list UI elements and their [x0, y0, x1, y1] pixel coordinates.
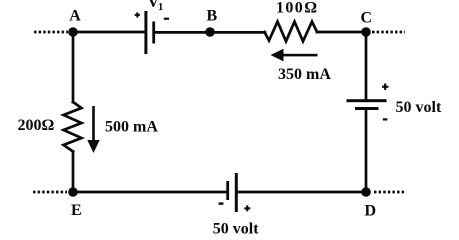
node E dot: [68, 187, 78, 197]
dotted stub left of node E: [33, 191, 67, 194]
wire right: battery bottom plate down to D: [365, 110, 368, 192]
battery 50V right plus sign: [382, 84, 388, 90]
svg-text:C: C: [361, 9, 373, 26]
battery 50V bottom plus sign: [244, 205, 250, 211]
svg-text:50 volt: 50 volt: [396, 99, 442, 116]
svg-text:100Ω: 100Ω: [276, 0, 318, 17]
svg-text:200Ω: 200Ω: [18, 117, 55, 134]
svg-text:A: A: [69, 8, 81, 25]
dotted stub left of node A: [34, 31, 68, 34]
battery V1 right plate (short, -): [152, 22, 155, 44]
svg-text:E: E: [71, 202, 82, 219]
wire top: resistor to C: [317, 31, 366, 34]
resistor 100ohm zigzag: [265, 22, 318, 42]
wire right: C down to battery top plate: [365, 32, 368, 100]
wire left: resistor top up to A: [72, 32, 75, 102]
battery V1 left plate (tall, +): [144, 11, 147, 54]
battery V1 minus sign: [164, 18, 169, 20]
battery 50V bottom: right plate (tall, +): [235, 173, 238, 212]
node C dot: [361, 27, 371, 37]
svg-text:B: B: [207, 8, 218, 25]
battery V1 plus sign: [135, 12, 140, 17]
current arrow 350 mA (pointing left): [271, 49, 318, 62]
svg-text:500 mA: 500 mA: [105, 119, 158, 136]
svg-text:50 volt: 50 volt: [213, 221, 259, 238]
resistor 200ohm zigzag: [64, 102, 82, 152]
battery 50V right: bottom plate (short, -): [355, 107, 379, 110]
svg-text:350 mA: 350 mA: [278, 66, 331, 83]
current arrow 500 mA (pointing down): [87, 106, 99, 153]
node D dot: [361, 187, 371, 197]
dotted stub right of node C: [372, 31, 405, 34]
wire left: E up to resistor 200ohm: [72, 152, 75, 193]
battery 50V bottom: left plate (short, -): [226, 181, 229, 200]
dotted stub right of node D: [374, 191, 404, 194]
node B dot: [205, 27, 215, 37]
svg-text:D: D: [365, 203, 377, 220]
svg-text:1: 1: [158, 2, 163, 13]
wire top: A to battery V1 left plate: [73, 31, 144, 34]
wire top: battery V1 right plate to B to resistor: [156, 31, 265, 34]
node A dot: [68, 27, 78, 37]
battery 50V right minus sign: [383, 118, 388, 120]
wire bottom: bottom battery left plate to E: [73, 191, 226, 194]
battery 50V bottom minus sign: [219, 202, 224, 204]
battery 50V right: top plate (long, +): [347, 99, 387, 102]
wire bottom: D to bottom battery right plate: [237, 191, 366, 194]
